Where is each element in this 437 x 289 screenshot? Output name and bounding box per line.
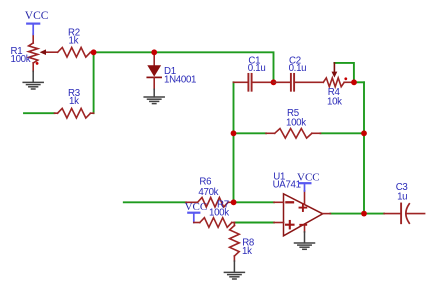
svg-text:1k: 1k — [69, 96, 79, 107]
U1 power pin top — [304, 191, 306, 204]
svg-text:VCC: VCC — [185, 201, 208, 213]
U1 power pin bottom — [304, 226, 306, 232]
junction R2/top bus — [91, 49, 97, 55]
resistor R5 — [266, 129, 321, 139]
junction R4 right — [351, 79, 357, 85]
junction R5 left — [231, 130, 237, 136]
U1 non-inverting input symbol — [286, 221, 294, 228]
wire R3 left stub — [24, 112, 55, 114]
VCC symbol top-left — [27, 24, 39, 35]
diode D1 — [153, 52, 155, 65]
resistor R6 — [186, 198, 234, 208]
R1 wiper arrowhead — [40, 49, 46, 55]
junction R6 right — [231, 199, 237, 205]
svg-text:1N4001: 1N4001 — [164, 75, 196, 86]
R4 wiper arrow — [333, 63, 335, 72]
wire left vertical rail — [233, 82, 235, 202]
svg-text:470k: 470k — [198, 187, 218, 198]
capacitor C3 — [384, 204, 425, 224]
wire R6 to inverting input — [234, 201, 274, 203]
D1 junction dot — [151, 49, 157, 55]
wire right vertical rail — [363, 82, 365, 213]
svg-text:VCC: VCC — [297, 172, 320, 184]
R1 pin dot — [36, 62, 39, 65]
resistor R3 — [55, 108, 94, 118]
svg-text:0.1u: 0.1u — [289, 63, 307, 74]
ground under D1 — [144, 89, 164, 103]
capacitor C2 — [274, 74, 324, 91]
wire R2 junction down to R3 — [93, 52, 95, 113]
svg-text:100k: 100k — [209, 207, 229, 218]
svg-text:1u: 1u — [397, 191, 407, 202]
svg-text:1k: 1k — [242, 246, 252, 257]
U1 V+ power symbol — [300, 204, 307, 211]
resistor R8 — [230, 223, 240, 262]
capacitor C1 — [234, 74, 274, 91]
wire top bus y=52 — [94, 52, 274, 82]
wire R4 out to right rail — [354, 81, 364, 83]
svg-text:0.1u: 0.1u — [248, 63, 266, 74]
resistor R2 — [58, 48, 94, 58]
ground under R1 — [23, 71, 43, 89]
svg-text:100k: 100k — [11, 54, 31, 65]
VCC symbol at R7 — [188, 213, 199, 223]
ground under op-amp — [295, 232, 315, 249]
svg-text:100k: 100k — [286, 118, 306, 129]
junction R5 right — [361, 130, 367, 136]
junction output node — [361, 211, 367, 217]
op-amp U1 — [274, 194, 330, 236]
wire R5 right — [321, 132, 365, 134]
resistor R7 — [194, 218, 235, 228]
R4 pin dot — [344, 77, 347, 80]
wire R6 input stub — [124, 201, 186, 203]
VCC symbol at op-amp — [299, 183, 310, 191]
wire output to C3 — [330, 213, 384, 215]
resistor R4 (pot) — [323, 78, 354, 87]
wire R7 to non-inverting input — [234, 222, 274, 224]
wire R5 left — [234, 132, 267, 134]
junction C1/C2 — [271, 79, 277, 85]
ground under R8 — [224, 261, 244, 279]
U1 inverting input symbol — [286, 201, 293, 203]
svg-text:10k: 10k — [327, 96, 342, 107]
U1 V- power symbol — [300, 224, 306, 226]
svg-text:1k: 1k — [69, 35, 79, 46]
resistor R1 (pot) — [29, 34, 58, 71]
svg-text:VCC: VCC — [25, 10, 49, 22]
wire R4 feedback loop — [334, 63, 354, 82]
